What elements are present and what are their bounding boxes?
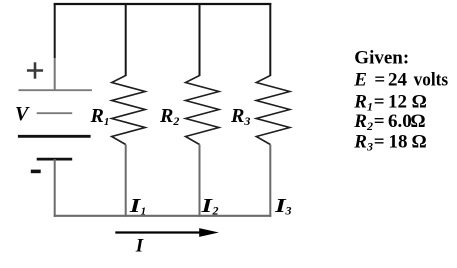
svg-text:R1: R1 bbox=[90, 105, 110, 128]
svg-text:R2: R2 bbox=[159, 105, 179, 128]
svg-text:2: 2 bbox=[212, 204, 219, 218]
current arrow I shaft bbox=[115, 231, 203, 233]
svg-text:E=24volts: E=24volts bbox=[353, 70, 448, 91]
resistor R1 zigzag bbox=[112, 76, 146, 145]
wire battery branch vertical (lower gray part) bbox=[54, 58, 56, 90]
wire R3 top vertical bbox=[269, 3, 271, 76]
wire top rail bbox=[54, 3, 272, 5]
current arrow I head bbox=[199, 228, 219, 237]
wire R2 top vertical bbox=[199, 3, 201, 76]
battery V plate 4 (short, black) bbox=[37, 158, 72, 161]
battery minus sign bbox=[31, 170, 41, 174]
wire battery to bottom rail bbox=[54, 159, 56, 217]
wire R1 top vertical bbox=[125, 3, 127, 76]
given text block bbox=[353, 48, 448, 154]
battery plus sign bbox=[27, 62, 43, 78]
resistor R2 zigzag bbox=[186, 76, 220, 145]
wire R2 bottom stub bbox=[199, 145, 201, 217]
svg-text:R3=18Ω: R3=18Ω bbox=[353, 131, 426, 153]
svg-text:V: V bbox=[15, 103, 30, 125]
wire bottom rail bbox=[54, 215, 272, 217]
svg-text:Given:: Given: bbox=[354, 48, 409, 69]
battery V plate 3 (long, black) bbox=[18, 135, 91, 138]
svg-text:I: I bbox=[135, 235, 144, 256]
svg-text:1: 1 bbox=[141, 206, 147, 218]
resistor R3 zigzag bbox=[256, 76, 290, 145]
wire R3 bottom stub bbox=[269, 145, 271, 217]
battery V plate 1 (long, gray, +) bbox=[18, 89, 92, 91]
battery V plate 2 (short, gray) bbox=[37, 112, 72, 114]
svg-text:R1=12Ω: R1=12Ω bbox=[353, 91, 427, 113]
svg-text:R3: R3 bbox=[230, 105, 250, 128]
wire R1 bottom stub bbox=[125, 145, 127, 217]
svg-text:R2=6.0Ω: R2=6.0Ω bbox=[353, 111, 425, 133]
svg-text:3: 3 bbox=[285, 204, 292, 218]
wire battery branch vertical (upper black part) bbox=[54, 3, 56, 58]
